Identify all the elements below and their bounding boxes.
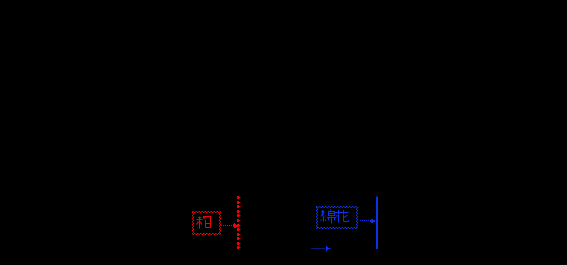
kanji label: rice plant (pixel art) bbox=[197, 217, 212, 229]
dotted arrow: rice legend to its boundary line bbox=[221, 223, 237, 228]
kanji label: cotton char 1 (pixel art) bbox=[321, 210, 336, 224]
kanji label: cotton char 2 (pixel art) bbox=[335, 210, 349, 223]
boundary line: rice limit (triangle-hatched vertical line) bbox=[237, 196, 240, 249]
wind/current arrow (blue dotted, bottom) bbox=[312, 246, 331, 251]
legend box: cotton (dashed blue) bbox=[316, 207, 358, 229]
legend box: rice (dashed red) bbox=[193, 212, 221, 235]
dotted arrow: cotton legend to its boundary line bbox=[360, 219, 375, 223]
boundary line: cotton limit (solid blue vertical) bbox=[376, 197, 378, 249]
